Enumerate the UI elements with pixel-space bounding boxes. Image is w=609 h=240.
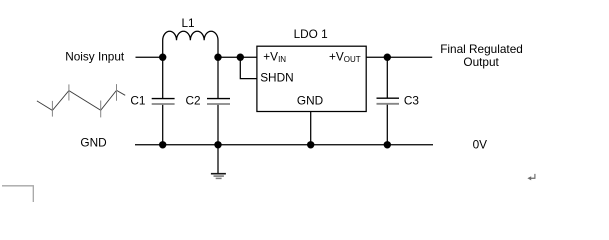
svg-text:C1: C1: [130, 94, 145, 108]
svg-text:L1: L1: [182, 16, 195, 30]
svg-text:SHDN: SHDN: [260, 70, 293, 84]
svg-text:LDO 1: LDO 1: [294, 27, 328, 41]
svg-text:Output: Output: [463, 55, 499, 69]
svg-text:GND: GND: [297, 94, 323, 108]
svg-text:0V: 0V: [473, 137, 488, 151]
svg-text:Final Regulated: Final Regulated: [440, 42, 523, 56]
svg-text:GND: GND: [80, 135, 106, 149]
svg-text:C3: C3: [404, 94, 420, 108]
svg-text:C2: C2: [186, 94, 201, 108]
svg-text:Noisy Input: Noisy Input: [65, 49, 125, 63]
